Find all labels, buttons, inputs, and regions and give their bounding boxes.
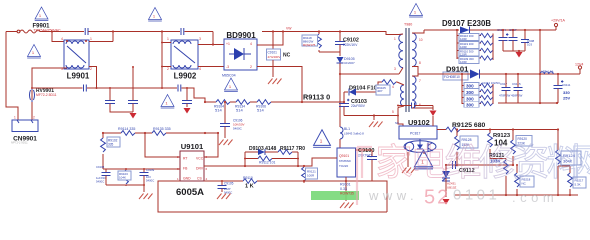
svg-text:R9113 0: R9113 0 bbox=[303, 93, 330, 102]
svg-text:458F2W: 458F2W bbox=[511, 94, 523, 98]
resistor R9117 bbox=[278, 146, 305, 154]
svg-text:25V: 25V bbox=[563, 96, 570, 101]
Y-capacitor C1 bbox=[105, 88, 133, 112]
resistor R9120 bbox=[511, 128, 532, 166]
svg-text:52: 52 bbox=[424, 187, 450, 209]
resistor R9103 bbox=[106, 168, 131, 186]
terminal +12V bbox=[575, 63, 583, 75]
ground arrow A4 bbox=[443, 199, 450, 205]
protective earth E4 bbox=[369, 122, 383, 128]
capacitor C9105 bbox=[218, 180, 234, 195]
wire BD+ to rail bbox=[257, 32, 283, 46]
svg-text:UF2007: UF2007 bbox=[344, 61, 355, 65]
svg-text:2: 2 bbox=[90, 67, 92, 71]
svg-text:DRV: DRV bbox=[196, 167, 204, 171]
startup chain R9104 R9134 R9106 bbox=[204, 100, 344, 113]
svg-text:ROW735: ROW735 bbox=[340, 192, 354, 196]
svg-text:资: 资 bbox=[513, 142, 550, 183]
wire gate bbox=[298, 158, 337, 166]
svg-text:L9902: L9902 bbox=[174, 72, 197, 81]
bottom rail right bbox=[455, 194, 578, 196]
svg-text:10: 10 bbox=[419, 38, 423, 42]
warning triangle T3 bbox=[148, 8, 162, 22]
svg-text:NP72-2 9D11: NP72-2 9D11 bbox=[11, 141, 28, 145]
svg-text:C9108: C9108 bbox=[96, 165, 105, 169]
wire N line with series cap bbox=[32, 88, 205, 102]
svg-text:维: 维 bbox=[445, 142, 482, 183]
protective earth E7 bbox=[139, 194, 153, 200]
svg-text:网: 网 bbox=[571, 142, 590, 183]
svg-text:0101: 0101 bbox=[453, 187, 500, 204]
svg-text:1: 1 bbox=[167, 37, 169, 41]
protective earth E2 bbox=[268, 79, 282, 85]
svg-text:T980: T980 bbox=[404, 23, 412, 27]
svg-text:L9901: L9901 bbox=[67, 72, 90, 81]
label U9102 bbox=[395, 118, 430, 127]
svg-text:0.33: 0.33 bbox=[340, 187, 347, 191]
capacitor C9106 bbox=[220, 101, 245, 138]
Y-capacitor C9104 bbox=[182, 87, 192, 107]
svg-text:C9111: C9111 bbox=[562, 83, 571, 87]
watermark bracket bbox=[357, 147, 372, 205]
svg-text:C9101: C9101 bbox=[268, 51, 278, 55]
svg-text:5: 5 bbox=[392, 110, 394, 114]
svg-text:6005A: 6005A bbox=[176, 187, 204, 198]
optocoupler U9102 box bbox=[399, 126, 437, 139]
capacitor C9115 bbox=[511, 73, 523, 103]
varistor RV9901 bbox=[30, 88, 57, 102]
aux return rail bbox=[344, 115, 398, 117]
junction VCC riser bbox=[217, 132, 219, 134]
svg-text:GND: GND bbox=[183, 177, 191, 181]
svg-text:D9107 E230B: D9107 E230B bbox=[442, 19, 491, 28]
ground arrow A5 bbox=[184, 108, 191, 114]
svg-text:C9114: C9114 bbox=[497, 28, 506, 32]
bridge rectifier BD9901 bbox=[224, 39, 257, 70]
svg-text:6TM6SD: 6TM6SD bbox=[339, 159, 352, 163]
svg-text:4R7: 4R7 bbox=[377, 89, 383, 93]
svg-text:103: 103 bbox=[527, 43, 532, 47]
riser x213 bbox=[212, 32, 214, 45]
svg-text:514: 514 bbox=[236, 108, 243, 113]
svg-text:R9135 335: R9135 335 bbox=[153, 127, 171, 131]
long vertical to return rail bbox=[539, 30, 541, 103]
warning triangle T2 bbox=[27, 45, 41, 59]
fuse F9901 bbox=[17, 30, 42, 33]
transformer aux winding bbox=[392, 82, 404, 126]
svg-text:修: 修 bbox=[479, 142, 516, 183]
svg-text:+29V/1A: +29V/1A bbox=[551, 19, 565, 23]
diode D9103 bbox=[245, 146, 278, 155]
shunt reg AZ431 bbox=[442, 165, 457, 197]
capacitor C9117 bbox=[499, 73, 511, 103]
svg-text:BD9901: BD9901 bbox=[226, 31, 256, 40]
protective earth E8 bbox=[217, 194, 231, 200]
svg-text:5400C: 5400C bbox=[96, 180, 104, 184]
svg-text:www.: www. bbox=[368, 188, 418, 203]
svg-text:4: 4 bbox=[392, 85, 394, 89]
protective earth E3 bbox=[219, 140, 233, 146]
+29V rail bbox=[470, 27, 557, 31]
svg-text:4: 4 bbox=[250, 42, 252, 46]
warning triangle T4 bbox=[222, 74, 238, 92]
svg-text:8: 8 bbox=[419, 61, 421, 65]
ferrite bead BL1 bbox=[340, 127, 364, 148]
svg-text:C9113 102/NC: C9113 102/NC bbox=[482, 81, 500, 85]
diode D9104 bbox=[344, 86, 380, 96]
wire FB bbox=[103, 168, 180, 170]
svg-text:300: 300 bbox=[466, 96, 474, 101]
svg-text:514: 514 bbox=[257, 108, 264, 113]
wire RT tap bbox=[145, 133, 180, 157]
common-mode choke L9902 bbox=[167, 37, 201, 71]
svg-text:1: 1 bbox=[394, 37, 396, 41]
svg-text:1 K: 1 K bbox=[245, 184, 254, 190]
resistor R9102 bbox=[101, 132, 120, 169]
svg-text:.com: .com bbox=[512, 190, 558, 205]
svg-text:FCH08E10: FCH08E10 bbox=[444, 75, 460, 79]
wire L9901 bottom right to L9902 bbox=[89, 67, 97, 89]
svg-text:2: 2 bbox=[250, 65, 252, 69]
svg-text:R9114 335: R9114 335 bbox=[118, 127, 135, 131]
svg-text:+1: +1 bbox=[226, 42, 230, 46]
transformer primary winding bbox=[394, 34, 403, 74]
svg-text:RQW175: RQW175 bbox=[303, 43, 316, 47]
diode D9101 bbox=[418, 70, 580, 81]
svg-text:2: 2 bbox=[167, 67, 169, 71]
capacitor C9111 bbox=[554, 73, 571, 103]
svg-text:478F2W: 478F2W bbox=[499, 94, 511, 98]
wire GND to bottom rail bbox=[158, 181, 387, 212]
resistor R9131 bbox=[489, 153, 508, 195]
wire VCC bbox=[204, 133, 218, 157]
watermark url bbox=[368, 187, 558, 209]
MOSFET Q9101 bbox=[337, 148, 356, 201]
svg-text:电: 电 bbox=[411, 142, 448, 183]
capacitor C9103 bbox=[339, 92, 367, 116]
warning triangle T7 bbox=[414, 150, 433, 169]
svg-text:FB: FB bbox=[183, 167, 188, 171]
transformer secondary winding 1 bbox=[412, 30, 424, 74]
svg-text:-3: -3 bbox=[226, 65, 229, 69]
capacitor C9109 bbox=[126, 168, 155, 192]
svg-text:L9843 3u8x0.8: L9843 3u8x0.8 bbox=[344, 132, 364, 136]
startup resistors R9114 R9135 bbox=[103, 127, 218, 135]
capacitor C9108 bbox=[96, 165, 111, 185]
diode D9105 bbox=[337, 57, 356, 74]
svg-text:R9101: R9101 bbox=[340, 183, 351, 187]
svg-text:300: 300 bbox=[466, 103, 474, 108]
svg-text:330: 330 bbox=[563, 90, 570, 95]
svg-text:M65C04: M65C04 bbox=[222, 74, 236, 78]
resistor R9118 bbox=[302, 30, 321, 52]
wire DRV network bbox=[204, 165, 298, 167]
ref wire bbox=[446, 164, 513, 166]
capacitor C9108b bbox=[521, 29, 535, 51]
svg-text:R9117 7R0: R9117 7R0 bbox=[280, 146, 305, 152]
terminal +29V bbox=[551, 19, 565, 27]
svg-text:4: 4 bbox=[199, 67, 201, 71]
warning triangle T5 bbox=[409, 4, 423, 18]
warning triangle T1 bbox=[35, 7, 49, 21]
svg-text:5400C: 5400C bbox=[233, 127, 243, 131]
svg-text:12V4: 12V4 bbox=[575, 63, 583, 67]
svg-text:MF72-2.5D11: MF72-2.5D11 bbox=[36, 93, 57, 97]
wire BD negative bbox=[257, 67, 302, 103]
svg-text:R9120: R9120 bbox=[518, 137, 528, 141]
wire cap join + ground arrow A2 bbox=[503, 50, 525, 52]
wire left vertical bbox=[6, 32, 18, 121]
svg-text:RT: RT bbox=[183, 157, 187, 161]
wires L9902 to bridge bbox=[162, 43, 171, 67]
svg-text:120R: 120R bbox=[460, 37, 467, 41]
resistor bank R9116 R9119 R9110 R9109 bbox=[456, 29, 493, 64]
resistor R9121 bbox=[302, 165, 318, 183]
transformer T980 core bbox=[404, 23, 412, 113]
resistor R9112 bbox=[244, 156, 299, 164]
wire riser to L9901 bbox=[52, 32, 64, 42]
wire opto pins bbox=[408, 152, 424, 167]
svg-text:TO220: TO220 bbox=[339, 164, 348, 168]
svg-text:R9112 101: R9112 101 bbox=[259, 161, 275, 165]
common-mode choke L9901 bbox=[61, 37, 92, 71]
svg-text:7: 7 bbox=[419, 79, 421, 83]
capacitor C9107 bbox=[509, 28, 518, 51]
warning triangle T6 bbox=[313, 130, 331, 148]
svg-text:474/400V: 474/400V bbox=[268, 55, 281, 59]
capacitor CX series bbox=[84, 85, 87, 92]
riser x113 bbox=[112, 32, 114, 42]
svg-text:U9101: U9101 bbox=[181, 142, 204, 151]
svg-text:5.3K: 5.3K bbox=[575, 183, 581, 187]
svg-text:BL1: BL1 bbox=[344, 127, 350, 131]
svg-text:C9115: C9115 bbox=[512, 82, 521, 86]
svg-text:CS: CS bbox=[197, 177, 202, 181]
svg-text:4: 4 bbox=[61, 37, 63, 41]
capacitor C9102 bbox=[335, 30, 359, 52]
resistor R9105 bbox=[356, 80, 397, 95]
svg-text:VCC: VCC bbox=[196, 157, 204, 161]
svg-text:1: 1 bbox=[14, 116, 16, 120]
resistor R9128 bbox=[455, 128, 478, 166]
svg-text:家: 家 bbox=[376, 142, 413, 183]
ground arrow A1 bbox=[130, 113, 137, 119]
riser x162 bbox=[161, 32, 163, 89]
capacitor C9101 bbox=[267, 49, 291, 77]
svg-text:222K/1KV: 222K/1KV bbox=[343, 43, 358, 47]
svg-text:NC: NC bbox=[395, 121, 399, 125]
resistor bank 300 x4 bbox=[461, 73, 493, 108]
resistor R9125 bbox=[446, 122, 485, 132]
capacitor C9114 bbox=[497, 28, 508, 51]
optocoupler ellipse bbox=[404, 139, 436, 152]
svg-text:C9105: C9105 bbox=[224, 182, 234, 186]
wire top-left bbox=[6, 31, 213, 33]
diode D9107 bbox=[424, 27, 470, 34]
wire L9901 to L9902 top bbox=[89, 41, 113, 43]
capacitor X1a on rail bbox=[85, 28, 88, 35]
resistor R9124 bbox=[556, 128, 581, 195]
feedback rail bbox=[437, 129, 558, 131]
svg-text:PC817: PC817 bbox=[410, 132, 420, 136]
svg-text:NC: NC bbox=[283, 53, 291, 59]
node branch verticals bbox=[245, 152, 298, 166]
Y-capacitor C2 bbox=[109, 66, 138, 112]
capacitor C9101 branch bbox=[272, 32, 274, 50]
svg-text:300: 300 bbox=[466, 90, 474, 95]
protective earth E9 bbox=[402, 168, 416, 174]
svg-text:335: 335 bbox=[108, 143, 114, 147]
sense resistor R9101 (highlighted) bbox=[311, 180, 359, 200]
resistor R9217 bbox=[558, 166, 586, 195]
warning triangle T9 bbox=[161, 95, 175, 109]
svg-text:3: 3 bbox=[394, 67, 396, 71]
transformer secondary winding 2 bbox=[412, 74, 433, 110]
svg-text:22uF/50V: 22uF/50V bbox=[351, 104, 366, 108]
connector CN9901 bbox=[12, 116, 38, 132]
svg-text:514: 514 bbox=[215, 108, 222, 113]
svg-text:R9125 680: R9125 680 bbox=[452, 122, 485, 129]
svg-text:C9109: C9109 bbox=[146, 168, 155, 172]
resistor R9218 bbox=[515, 164, 534, 195]
capacitor C9100 bbox=[346, 148, 387, 212]
svg-text:5400C: 5400C bbox=[146, 179, 154, 183]
wire drain from transformer bbox=[340, 74, 399, 127]
svg-text:2: 2 bbox=[33, 116, 35, 120]
wire L9901 bottom left to RV branch bbox=[32, 68, 67, 120]
wire CS bbox=[204, 180, 243, 182]
svg-text:100R: 100R bbox=[307, 174, 315, 178]
wire snubber join bbox=[319, 52, 340, 56]
svg-text:1: 1 bbox=[90, 37, 92, 41]
resistor R9115 bbox=[243, 176, 346, 190]
capacitor X2b series on N bbox=[178, 85, 181, 92]
svg-text:1: 1 bbox=[320, 139, 323, 144]
top rail with X-cap bbox=[262, 32, 399, 35]
inductor LPF bbox=[539, 70, 554, 76]
resistor R9123 bbox=[488, 128, 511, 158]
capacitor above opto bbox=[397, 103, 422, 109]
return rail y103 bbox=[498, 102, 557, 104]
capacitor X1b on rail bbox=[181, 28, 184, 35]
svg-text:Q9101: Q9101 bbox=[339, 154, 349, 158]
fuse F9901 label bbox=[32, 24, 61, 33]
svg-text:104K: 104K bbox=[119, 176, 126, 180]
svg-text:300: 300 bbox=[466, 84, 474, 89]
svg-text:3: 3 bbox=[199, 37, 201, 41]
capacitor C9112 bbox=[453, 161, 475, 174]
protective earth E5 bbox=[340, 203, 354, 209]
ground arrow A3 bbox=[422, 106, 437, 127]
svg-text:VW: VW bbox=[286, 27, 292, 31]
IC U9101 bbox=[177, 151, 208, 181]
